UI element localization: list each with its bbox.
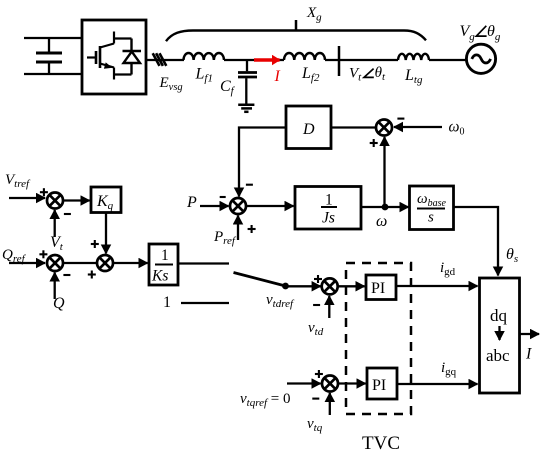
wire vtqref arrow <box>287 382 321 384</box>
svg-text:dq: dq <box>490 306 508 325</box>
arrow vtd up <box>328 296 330 318</box>
wire J4 to 1/Js <box>246 205 294 207</box>
wire switch top contact <box>178 262 229 264</box>
block 1/Js <box>295 187 361 230</box>
wire Vtref arrow <box>9 197 45 199</box>
svg-text:P: P <box>186 194 197 211</box>
minus sign J2 <box>63 274 70 276</box>
svg-text:1: 1 <box>325 192 333 209</box>
svg-text:1: 1 <box>161 247 169 264</box>
minus sign J4 left <box>220 196 226 198</box>
summing junction J2 <box>47 255 63 271</box>
svg-text:D: D <box>302 121 315 138</box>
brace Xg <box>166 31 426 42</box>
arrow Vt up <box>54 210 56 237</box>
svg-text:θt: θt <box>375 65 386 83</box>
current arrow I <box>254 58 280 61</box>
wire J7 to PI2 <box>338 382 366 384</box>
AC source sine <box>472 55 491 63</box>
switch node dot <box>282 283 289 290</box>
plus sign J3 bottom <box>88 271 96 279</box>
svg-text:vtdref: vtdref <box>266 292 295 310</box>
minus sign J1 <box>64 213 71 215</box>
inductor Lf1 <box>184 53 224 60</box>
summing junction J7 <box>322 376 338 392</box>
switch blade <box>234 273 286 287</box>
wire Lf1 to Lf2 <box>224 59 284 61</box>
svg-text:Vt: Vt <box>50 234 64 253</box>
svg-text:I: I <box>274 68 281 85</box>
summing junction J5 <box>376 120 392 136</box>
svg-text:1: 1 <box>163 294 171 311</box>
plus sign J4 bottom <box>248 225 256 233</box>
wire PI1 to dq <box>396 285 478 287</box>
svg-text:vtd: vtd <box>308 320 324 338</box>
arrow omega0 <box>394 126 442 128</box>
ground <box>238 105 254 112</box>
wire PI2 to dq <box>397 383 478 385</box>
svg-text:Vt: Vt <box>349 65 362 83</box>
summing junction J6 <box>322 278 338 294</box>
plus sign J6 <box>314 275 322 283</box>
node Vt tick <box>338 46 341 76</box>
svg-text:Pref: Pref <box>213 229 237 247</box>
capacitor DC-link <box>36 38 62 74</box>
wire D feedback <box>239 128 286 197</box>
transistor emitter arrow <box>104 62 113 68</box>
wire J3 to 1/Ks <box>113 262 148 264</box>
svg-text:Kq: Kq <box>96 193 114 212</box>
svg-text:Js: Js <box>322 210 335 227</box>
plus sign J7 <box>315 370 323 378</box>
wire J2 to J3 <box>63 262 97 264</box>
wire omega up to J5 <box>383 137 385 207</box>
svg-text:ω0: ω0 <box>449 119 465 138</box>
svg-text:Vg: Vg <box>460 23 476 43</box>
inductor Lf2 <box>284 53 325 60</box>
block wbase/s <box>410 186 454 230</box>
diode freewheeling <box>123 39 142 75</box>
wire theta_s <box>453 207 498 276</box>
svg-text:s: s <box>428 210 434 226</box>
svg-text:vtqref = 0: vtqref = 0 <box>240 391 291 409</box>
plus sign J2 <box>39 250 47 258</box>
svg-text:igq: igq <box>441 360 457 378</box>
svg-text:I: I <box>525 346 532 363</box>
minus sign J7 <box>312 398 319 400</box>
summing junction J4 <box>230 198 246 214</box>
wire switch to J6 <box>286 285 321 287</box>
svg-text:ω: ω <box>376 213 387 230</box>
wire Qref arrow <box>9 262 45 264</box>
wire P arrow <box>200 205 229 207</box>
wire dc bottom <box>24 73 82 75</box>
block D <box>286 106 331 149</box>
plus sign J3 top <box>91 240 99 248</box>
arrow dq to abc <box>498 326 500 340</box>
svg-text:Cf: Cf <box>220 78 236 97</box>
svg-text:Vtref: Vtref <box>5 172 31 190</box>
svg-text:abc: abc <box>486 346 510 365</box>
svg-text:igd: igd <box>440 260 456 278</box>
dashed box TVC <box>346 263 411 414</box>
brace tick <box>295 20 298 31</box>
minus sign J6 <box>313 304 320 306</box>
wire Kq down to J3 <box>105 213 107 254</box>
wire Lf2 to Ltg <box>325 59 398 61</box>
block 1/Ks <box>149 244 178 285</box>
svg-text:Lf2: Lf2 <box>301 65 320 84</box>
transistor IGBT <box>87 32 132 80</box>
arrow Pref up <box>237 216 239 241</box>
arrow Q up <box>54 273 56 300</box>
svg-text:Lf1: Lf1 <box>195 65 213 84</box>
three-phase slashes <box>153 53 167 66</box>
wire dc top <box>24 37 82 39</box>
minus sign J4 top <box>246 184 253 186</box>
arrow vtq up <box>329 393 331 415</box>
node omega dot <box>382 204 389 211</box>
inverter box <box>82 20 146 94</box>
svg-text:PI: PI <box>371 280 385 297</box>
summing junction J1 <box>47 193 63 209</box>
svg-text:Q: Q <box>53 295 65 312</box>
svg-text:PI: PI <box>372 377 386 394</box>
svg-text:Xg: Xg <box>306 5 322 24</box>
svg-text:θg: θg <box>487 23 501 43</box>
svg-text:Evsg: Evsg <box>159 75 183 93</box>
wire output I <box>520 333 540 335</box>
svg-text:θs: θs <box>506 246 518 265</box>
plus sign J1 <box>40 188 48 196</box>
inductor Ltg <box>398 54 429 60</box>
wire switch bottom contact <box>181 302 229 304</box>
wire inverter output <box>146 59 184 61</box>
block PI1 <box>366 275 396 300</box>
svg-text:ωbase: ωbase <box>417 191 446 209</box>
wire J1 to Kq <box>63 199 90 201</box>
AC source Vg <box>466 44 495 73</box>
block PI2 <box>367 368 397 399</box>
block dq abc <box>480 278 520 393</box>
wire Ltg to source <box>429 59 467 61</box>
wire J6 to PI1 <box>338 285 365 287</box>
svg-text:TVC: TVC <box>362 433 400 454</box>
capacitor Cf <box>238 60 257 104</box>
block Kq <box>91 187 121 213</box>
plus sign J5 <box>370 139 378 147</box>
svg-text:vtq: vtq <box>307 416 323 434</box>
wire J5 to D <box>331 126 376 128</box>
wire 1/Js to wbase <box>361 206 409 208</box>
svg-text:Ltg: Ltg <box>404 67 423 86</box>
summing junction J3 <box>97 255 113 271</box>
svg-text:Ks: Ks <box>151 268 168 285</box>
minus sign J5 <box>397 118 404 120</box>
